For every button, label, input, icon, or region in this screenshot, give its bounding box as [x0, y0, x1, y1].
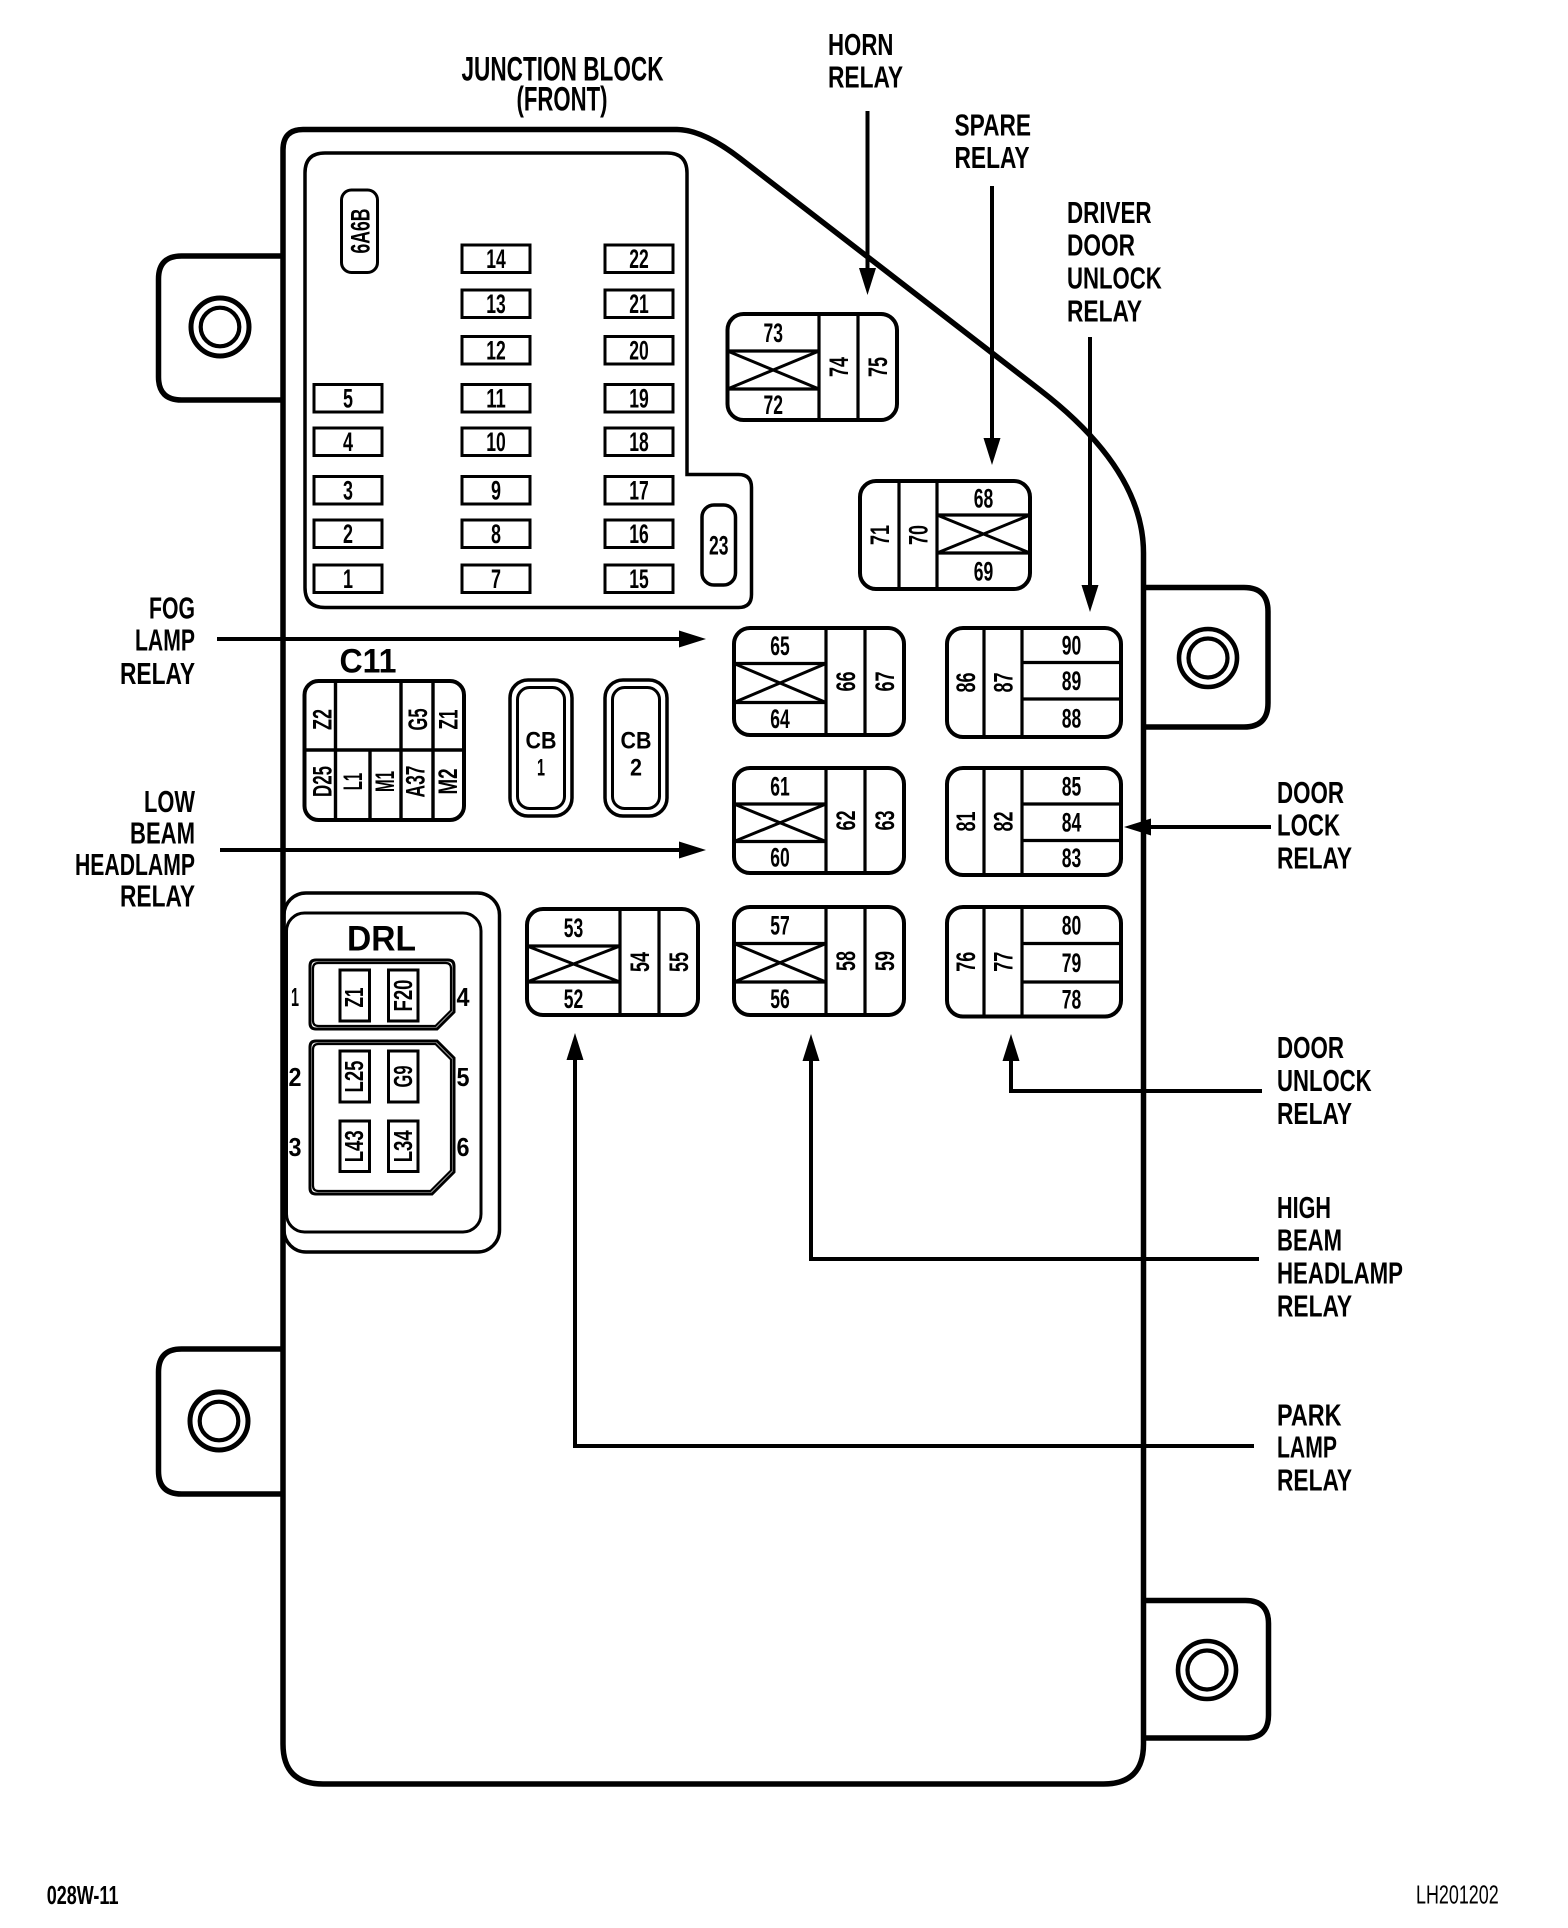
svg-text:UNLOCK: UNLOCK: [1277, 1063, 1372, 1098]
svg-text:DOOR: DOOR: [1067, 228, 1135, 263]
label HORN RELAY: [828, 27, 903, 95]
svg-text:19: 19: [629, 384, 649, 414]
svg-text:SPARE: SPARE: [955, 108, 1032, 143]
DRL fuse Z1: [340, 970, 370, 1021]
svg-text:21: 21: [629, 289, 649, 319]
svg-text:87: 87: [988, 673, 1018, 693]
svg-text:6A6B: 6A6B: [346, 209, 376, 254]
DRL pin housing bottom (pins 2,5,3,6): [310, 1041, 454, 1194]
svg-text:RELAY: RELAY: [1067, 293, 1142, 328]
svg-text:2: 2: [630, 754, 642, 781]
svg-text:RELAY: RELAY: [120, 878, 195, 913]
arrow to driver door unlock relay: [1082, 337, 1099, 612]
svg-text:F20: F20: [390, 980, 418, 1012]
C11 cavity G5: [403, 709, 433, 731]
svg-text:Z1: Z1: [341, 988, 369, 1008]
arrow to fog lamp relay: [217, 631, 706, 648]
svg-text:DOOR: DOOR: [1277, 775, 1344, 810]
fuse 20: [605, 336, 673, 366]
DRL pin 6: [457, 1132, 470, 1162]
mounting tab bottom-right: [1143, 1601, 1269, 1739]
label PARK LAMP RELAY: [1277, 1397, 1352, 1497]
C11 cavity Z1: [434, 710, 464, 730]
svg-text:BEAM: BEAM: [1277, 1223, 1342, 1258]
arrow to door lock relay: [1124, 819, 1271, 836]
fuse 13: [462, 289, 530, 319]
svg-text:FOG: FOG: [149, 591, 195, 626]
svg-text:11: 11: [486, 384, 506, 414]
svg-text:66: 66: [831, 672, 861, 692]
fuse 11: [462, 384, 530, 414]
svg-text:Z1: Z1: [434, 710, 464, 730]
C11 cavity A37: [401, 766, 431, 798]
drawing number 028W-11: [47, 1882, 119, 1910]
circuit breaker CB2: [605, 680, 667, 816]
svg-text:13: 13: [486, 289, 506, 319]
svg-text:86: 86: [951, 673, 981, 693]
fuse 5: [314, 384, 382, 414]
svg-text:5: 5: [343, 384, 353, 414]
svg-text:DRIVER: DRIVER: [1067, 195, 1152, 230]
svg-text:G5: G5: [403, 709, 433, 731]
svg-text:PARK: PARK: [1277, 1397, 1342, 1432]
svg-text:23: 23: [709, 530, 729, 560]
DRL fuse L34: [389, 1121, 419, 1172]
fuse 9: [462, 476, 530, 506]
svg-text:58: 58: [831, 951, 861, 971]
label FOG LAMP RELAY: [120, 591, 195, 691]
svg-text:DRL: DRL: [347, 919, 416, 958]
svg-text:62: 62: [831, 811, 861, 831]
svg-text:67: 67: [870, 672, 900, 692]
svg-text:CB: CB: [526, 727, 557, 754]
fuse 15: [605, 564, 673, 594]
label HIGH BEAM HEADLAMP RELAY: [1277, 1190, 1403, 1324]
C11 cavity L1: [338, 773, 368, 791]
fog lamp relay block (65/66/67/64): [734, 628, 904, 735]
svg-text:83: 83: [1062, 843, 1082, 873]
svg-text:12: 12: [486, 336, 506, 366]
svg-text:UNLOCK: UNLOCK: [1067, 261, 1162, 296]
svg-text:LAMP: LAMP: [135, 623, 195, 658]
svg-text:52: 52: [564, 984, 584, 1014]
svg-text:88: 88: [1062, 703, 1082, 733]
svg-text:DOOR: DOOR: [1277, 1030, 1344, 1065]
fuse 12: [462, 336, 530, 366]
svg-text:9: 9: [491, 476, 501, 506]
fuse 16: [605, 519, 673, 549]
svg-text:70: 70: [903, 525, 933, 545]
svg-text:HEADLAMP: HEADLAMP: [1277, 1255, 1403, 1290]
DRL pin 4: [457, 982, 470, 1012]
svg-text:HORN: HORN: [828, 27, 893, 62]
svg-text:81: 81: [951, 812, 981, 832]
svg-text:2: 2: [343, 519, 353, 549]
svg-text:82: 82: [988, 812, 1018, 832]
label DRIVER DOOR UNLOCK RELAY: [1067, 195, 1162, 328]
arrow to door unlock relay: [1003, 1034, 1263, 1091]
svg-text:18: 18: [629, 427, 649, 457]
fuse 10: [462, 427, 530, 457]
mounting tab bottom-left: [159, 1349, 284, 1494]
fuse 1: [314, 564, 382, 594]
connector C11 label: [340, 642, 397, 680]
fuse 8: [462, 519, 530, 549]
door lock relay block (81/82/85/84/83): [947, 768, 1121, 875]
arrow to horn relay: [859, 111, 876, 295]
fuse 4: [314, 427, 382, 457]
svg-text:RELAY: RELAY: [120, 656, 195, 691]
svg-text:65: 65: [770, 631, 790, 661]
svg-text:1: 1: [343, 564, 353, 594]
svg-text:84: 84: [1062, 808, 1082, 838]
svg-text:2: 2: [289, 1062, 302, 1092]
svg-text:7: 7: [491, 564, 501, 594]
label LOW BEAM HEADLAMP RELAY: [75, 784, 196, 913]
circuit breaker CB1: [510, 680, 572, 816]
svg-text:61: 61: [770, 771, 790, 801]
svg-text:59: 59: [870, 951, 900, 971]
svg-text:M1: M1: [370, 771, 400, 792]
spare relay block (71/70/68/69): [860, 481, 1030, 589]
svg-text:3: 3: [289, 1132, 302, 1162]
svg-text:79: 79: [1062, 948, 1082, 978]
DRL label: [347, 919, 416, 958]
high beam headlamp relay block (57/58/59/56): [734, 907, 904, 1015]
junction block body outline: [283, 130, 1144, 1785]
svg-text:RELAY: RELAY: [1277, 1096, 1352, 1131]
svg-text:HIGH: HIGH: [1277, 1190, 1331, 1225]
svg-text:L25: L25: [341, 1061, 369, 1093]
door unlock relay block (76/77/80/79/78): [947, 907, 1121, 1017]
svg-text:90: 90: [1062, 631, 1082, 661]
title JUNCTION BLOCK (FRONT): [462, 51, 664, 119]
svg-text:14: 14: [486, 244, 506, 274]
svg-text:(FRONT): (FRONT): [517, 81, 608, 119]
fuse 19: [605, 384, 673, 414]
svg-text:69: 69: [974, 556, 994, 586]
arrow to low beam headlamp relay: [220, 842, 706, 859]
DRL connector outer box: [284, 893, 500, 1252]
svg-text:M2: M2: [433, 769, 463, 795]
C11 cavity M2: [433, 769, 463, 795]
svg-text:L43: L43: [341, 1130, 369, 1162]
DRL fuse F20: [389, 970, 419, 1021]
svg-text:4: 4: [343, 427, 353, 457]
svg-text:RELAY: RELAY: [955, 140, 1030, 175]
mounting tab top-left: [159, 256, 284, 400]
drawing number LH201202: [1416, 1880, 1499, 1910]
svg-text:80: 80: [1062, 911, 1082, 941]
svg-text:A37: A37: [401, 766, 431, 798]
svg-text:22: 22: [629, 244, 649, 274]
C11 cavity D25: [308, 766, 338, 797]
svg-text:L1: L1: [338, 773, 368, 791]
DRL pin 2: [289, 1062, 302, 1092]
svg-text:3: 3: [343, 476, 353, 506]
svg-text:LOW: LOW: [144, 784, 196, 819]
svg-text:75: 75: [863, 357, 893, 377]
svg-text:L34: L34: [390, 1130, 418, 1163]
svg-text:20: 20: [629, 336, 649, 366]
svg-text:57: 57: [770, 911, 790, 941]
horn relay block (73/74/75/72): [728, 314, 898, 420]
svg-text:BEAM: BEAM: [130, 816, 195, 851]
svg-text:10: 10: [486, 427, 506, 457]
mounting tab right-middle: [1143, 588, 1268, 728]
svg-text:8: 8: [491, 519, 501, 549]
fuse 22: [605, 244, 673, 274]
svg-text:4: 4: [457, 982, 470, 1012]
svg-text:55: 55: [664, 952, 694, 972]
svg-text:1: 1: [537, 754, 545, 781]
arrow to spare relay: [984, 186, 1001, 465]
fuse 21: [605, 289, 673, 319]
arrow to park lamp relay: [567, 1033, 1255, 1446]
svg-text:16: 16: [629, 519, 649, 549]
svg-text:15: 15: [629, 564, 649, 594]
label DOOR UNLOCK RELAY: [1277, 1030, 1372, 1131]
DRL fuse L25: [340, 1051, 370, 1102]
svg-text:68: 68: [974, 483, 994, 513]
svg-text:C11: C11: [340, 642, 397, 680]
fuse 23: [702, 505, 736, 585]
DRL pin 3: [289, 1132, 302, 1162]
svg-text:HEADLAMP: HEADLAMP: [75, 847, 195, 882]
svg-text:5: 5: [457, 1062, 470, 1092]
svg-text:53: 53: [564, 913, 584, 943]
DRL pin 1: [291, 982, 299, 1012]
fuse 18: [605, 427, 673, 457]
svg-text:76: 76: [951, 952, 981, 972]
svg-text:RELAY: RELAY: [828, 60, 903, 95]
svg-text:72: 72: [764, 390, 784, 420]
svg-text:028W-11: 028W-11: [47, 1882, 119, 1910]
svg-text:77: 77: [988, 952, 1018, 972]
park lamp relay block (53/54/55/52): [527, 909, 698, 1015]
svg-text:Z2: Z2: [308, 709, 338, 730]
C11 cavity Z2: [308, 709, 338, 730]
svg-text:73: 73: [764, 318, 784, 348]
svg-text:74: 74: [824, 357, 854, 377]
fuse panel outline: [305, 153, 752, 608]
driver door unlock relay block (86/87/90/89/88): [947, 628, 1121, 737]
svg-text:CB: CB: [621, 727, 652, 754]
svg-text:89: 89: [1062, 666, 1082, 696]
DRL fuse G9: [389, 1051, 419, 1102]
svg-text:63: 63: [870, 811, 900, 831]
fuse 3: [314, 476, 382, 506]
svg-text:LAMP: LAMP: [1277, 1429, 1337, 1464]
svg-text:RELAY: RELAY: [1277, 1289, 1352, 1324]
svg-text:LH201202: LH201202: [1416, 1880, 1499, 1910]
DRL pin housing top (pins 1,4): [310, 960, 454, 1029]
svg-text:6: 6: [457, 1132, 470, 1162]
C11 cavity M1: [370, 771, 400, 792]
fuse 2: [314, 519, 382, 549]
svg-text:85: 85: [1062, 771, 1082, 801]
label SPARE RELAY: [955, 108, 1032, 175]
svg-text:G9: G9: [390, 1066, 418, 1088]
low beam headlamp relay block (61/62/63/60): [734, 768, 904, 873]
svg-text:64: 64: [770, 704, 790, 734]
DRL pin 5: [457, 1062, 470, 1092]
svg-text:56: 56: [770, 984, 790, 1014]
svg-text:D25: D25: [308, 766, 338, 797]
label DOOR LOCK RELAY: [1277, 775, 1352, 875]
connector 6A6B: [342, 190, 378, 273]
fuse 17: [605, 476, 673, 506]
DRL fuse L43: [340, 1121, 370, 1172]
svg-text:60: 60: [770, 843, 790, 873]
svg-text:RELAY: RELAY: [1277, 1462, 1352, 1497]
svg-text:RELAY: RELAY: [1277, 840, 1352, 875]
fuse 7: [462, 564, 530, 594]
svg-text:LOCK: LOCK: [1277, 807, 1340, 842]
svg-text:17: 17: [629, 476, 649, 506]
svg-text:54: 54: [625, 952, 655, 972]
connector C11 block: [305, 681, 465, 820]
arrow to high beam headlamp relay: [803, 1034, 1260, 1259]
fuse 14: [462, 244, 530, 274]
svg-text:1: 1: [291, 982, 299, 1012]
svg-text:71: 71: [865, 525, 895, 545]
svg-text:78: 78: [1062, 985, 1082, 1015]
